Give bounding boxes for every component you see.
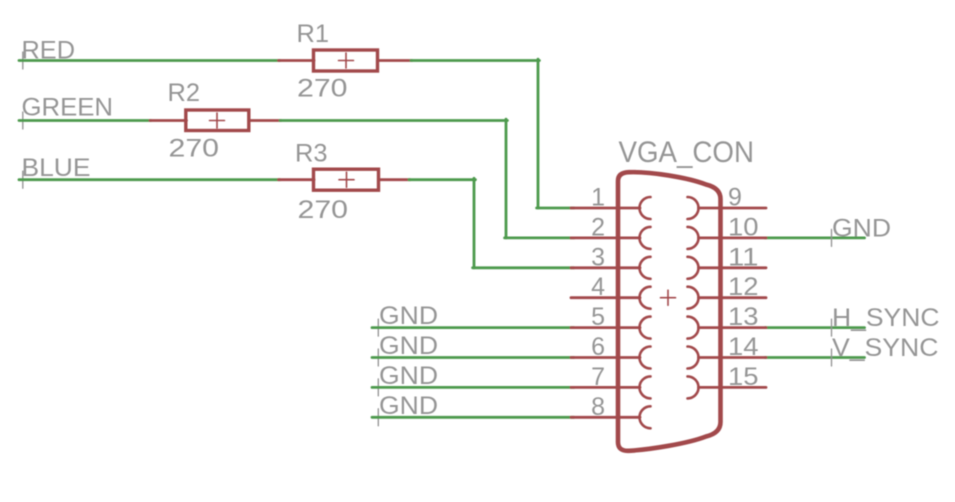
node H_SYNC origin tick — [831, 319, 833, 336]
connector pin 1 line — [571, 207, 640, 210]
connector pin 11 line — [699, 266, 767, 269]
svg-text:7: 7 — [591, 363, 605, 391]
wire RED segment 2 — [411, 59, 539, 62]
svg-text:GND: GND — [379, 302, 438, 330]
svg-text:15: 15 — [728, 363, 759, 391]
connector pin 12 contact — [688, 287, 699, 309]
connector pin 3 contact — [640, 257, 651, 279]
svg-text:12: 12 — [728, 273, 759, 301]
connector pin 12 line — [699, 296, 767, 299]
connector pin 14 contact — [688, 347, 699, 369]
wire RED vertical — [537, 59, 540, 208]
connector pin 7 line — [571, 386, 640, 389]
svg-text:10: 10 — [728, 213, 759, 241]
wire BLUE segment 2 — [409, 178, 475, 181]
node GND7 origin tick — [377, 379, 379, 396]
svg-text:1: 1 — [591, 184, 605, 212]
wire H_SYNC from pin 13 — [765, 326, 865, 329]
svg-text:14: 14 — [728, 333, 759, 361]
connector pin 5 line — [571, 326, 640, 329]
node GND6 origin tick — [377, 349, 379, 366]
svg-text:4: 4 — [591, 273, 605, 301]
connector pin 6 contact — [640, 347, 651, 369]
wire GND from pin 10 — [765, 236, 865, 239]
svg-text:3: 3 — [591, 243, 605, 271]
connector pin 8 line — [571, 416, 640, 419]
svg-text:2: 2 — [591, 213, 605, 241]
wire RED segment 3 to pin 1 — [537, 207, 574, 210]
connector pin 6 line — [571, 356, 640, 359]
node RED origin tick — [22, 52, 24, 69]
node GREEN origin tick — [22, 112, 24, 129]
wire GND to pin 5 — [372, 326, 574, 329]
wire GND to pin 8 — [372, 416, 574, 419]
connector pin 7 contact — [640, 376, 651, 398]
connector pin 5 contact — [640, 317, 651, 339]
connector pin 10 line — [699, 236, 767, 239]
svg-text:11: 11 — [728, 243, 759, 271]
svg-text:R2: R2 — [168, 79, 201, 107]
node GND5 origin tick — [377, 319, 379, 336]
connector pin 2 contact — [640, 227, 651, 249]
svg-text:270: 270 — [297, 75, 348, 103]
connector pin 2 line — [571, 236, 640, 239]
svg-text:GND: GND — [379, 392, 438, 420]
connector pin 3 line — [571, 266, 640, 269]
svg-text:H_SYNC: H_SYNC — [832, 304, 940, 332]
connector pin 1 contact — [640, 197, 651, 219]
svg-text:GND: GND — [379, 332, 438, 360]
svg-text:GREEN: GREEN — [22, 94, 114, 122]
resistor R3 — [279, 169, 411, 190]
resistor R1 — [279, 50, 413, 71]
wire GND to pin 7 — [372, 386, 574, 389]
node GND10 origin tick — [831, 229, 833, 246]
connector pin 13 line — [699, 326, 767, 329]
wire V_SYNC from pin 14 — [765, 356, 865, 359]
wire BLUE segment 1 — [19, 178, 280, 181]
connector VGA_CON body — [618, 172, 721, 451]
wire GND to pin 6 — [372, 356, 574, 359]
wire BLUE vertical — [473, 178, 476, 267]
wire GREEN vertical — [505, 119, 508, 238]
svg-text:270: 270 — [169, 135, 220, 163]
svg-text:VGA_CON: VGA_CON — [619, 136, 755, 169]
svg-text:R1: R1 — [297, 20, 330, 48]
wire BLUE segment 3 to pin 3 — [473, 266, 574, 269]
svg-text:9: 9 — [728, 184, 742, 212]
wire RED segment 1 — [19, 59, 280, 62]
svg-text:8: 8 — [591, 393, 605, 421]
connector pin 4 contact — [640, 287, 651, 309]
connector pin 10 contact — [688, 227, 699, 249]
node BLUE origin tick — [22, 171, 24, 188]
svg-text:5: 5 — [591, 303, 605, 331]
connector pin 15 contact — [688, 376, 699, 398]
svg-text:GND: GND — [832, 214, 891, 242]
connector pin 14 line — [699, 356, 767, 359]
svg-text:V_SYNC: V_SYNC — [832, 334, 939, 362]
connector pin 9 contact — [688, 197, 699, 219]
svg-text:270: 270 — [298, 196, 349, 224]
wire GREEN segment 1 — [19, 119, 151, 122]
svg-text:R3: R3 — [295, 140, 328, 168]
connector pin 9 line — [699, 207, 767, 210]
resistor R2 — [150, 110, 281, 131]
wire GREEN segment 3 to pin 2 — [505, 236, 574, 239]
wire GREEN segment 2 — [280, 119, 507, 122]
connector pin 8 contact — [640, 406, 651, 428]
node V_SYNC origin tick — [831, 349, 833, 366]
svg-text:6: 6 — [591, 333, 605, 361]
svg-text:13: 13 — [728, 303, 759, 331]
connector pin 13 contact — [688, 317, 699, 339]
svg-text:BLUE: BLUE — [22, 154, 91, 182]
connector pin 4 line — [571, 296, 640, 299]
node GND8 origin tick — [377, 409, 379, 426]
connector pin 15 line — [699, 386, 767, 389]
svg-text:GND: GND — [379, 362, 438, 390]
connector origin cross — [661, 297, 676, 299]
connector pin 11 contact — [688, 257, 699, 279]
